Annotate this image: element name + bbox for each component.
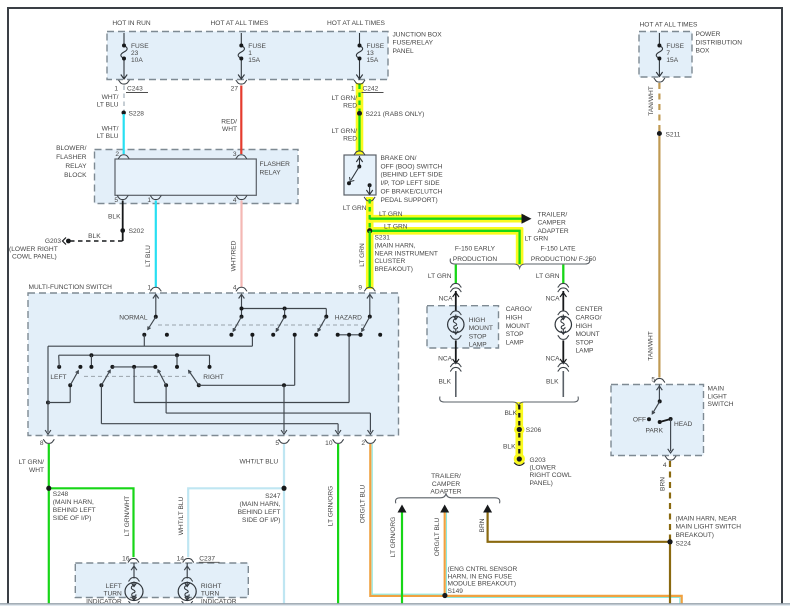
svg-text:OFF (BOO) SWITCH: OFF (BOO) SWITCH <box>381 163 443 170</box>
svg-text:FUSE: FUSE <box>367 43 385 50</box>
svg-text:2: 2 <box>115 151 119 158</box>
svg-text:MODULE BREAKOUT): MODULE BREAKOUT) <box>448 581 517 588</box>
svg-text:NCA: NCA <box>546 295 561 302</box>
svg-text:S221 (RABS ONLY): S221 (RABS ONLY) <box>366 111 425 118</box>
svg-text:(MAIN HARN,: (MAIN HARN, <box>375 242 416 249</box>
svg-text:BEHIND LEFT: BEHIND LEFT <box>53 507 96 514</box>
brace joining lamp grounds <box>440 397 579 407</box>
wire TAN/WHT dashed power box to S211 <box>658 83 660 131</box>
svg-text:SIDE OF I/P): SIDE OF I/P) <box>242 517 280 524</box>
wire LT BLU S228 to relay pin 2 <box>123 114 125 154</box>
wire WHT/LT BLU (white dashed) C243 to S228 <box>123 86 125 112</box>
svg-text:8: 8 <box>40 440 44 447</box>
stop lamp bulb <box>555 316 571 332</box>
svg-text:BREAKOUT): BREAKOUT) <box>676 532 714 539</box>
ground G203 (left) <box>66 239 71 244</box>
svg-text:STOP: STOP <box>506 331 524 338</box>
svg-text:NEAR INSTRUMENT: NEAR INSTRUMENT <box>375 250 438 257</box>
svg-text:WHT/LT BLU: WHT/LT BLU <box>178 496 185 535</box>
svg-text:S231: S231 <box>375 235 391 242</box>
svg-text:NCA: NCA <box>438 356 453 363</box>
splice S247 <box>282 486 287 491</box>
wire BLK to brace <box>455 371 457 397</box>
arrow LT GRN/ORG into adapter <box>398 505 407 513</box>
svg-text:ORG/LT BLU: ORG/LT BLU <box>434 517 441 556</box>
MLS pin 4 <box>665 456 676 460</box>
svg-text:PANEL: PANEL <box>393 48 414 55</box>
MFS top bus (hazard feed) <box>242 308 327 310</box>
svg-text:10: 10 <box>325 440 333 447</box>
svg-text:MOUNT: MOUNT <box>506 323 530 330</box>
svg-text:BLK: BLK <box>88 233 101 240</box>
branch LT GRN to F-150 brace <box>370 231 520 264</box>
wire LT GRN/RED S221 to BOO switch <box>358 116 360 152</box>
fuse 7 15A (power distribution box) <box>658 33 660 46</box>
svg-text:BLK: BLK <box>503 444 516 451</box>
svg-text:RELAY: RELAY <box>65 163 87 170</box>
stop lamp bulb <box>448 316 464 332</box>
svg-text:LAMP: LAMP <box>469 342 488 349</box>
svg-text:S149: S149 <box>448 588 464 595</box>
svg-text:WHT/: WHT/ <box>102 94 119 101</box>
relay pin 5 <box>117 195 128 199</box>
MFS pin 1 top <box>150 287 161 291</box>
wire highlight band LT GRN/RED from C242 <box>356 83 364 155</box>
svg-text:BLOWER/: BLOWER/ <box>56 145 87 152</box>
switch 2 (left turn feed) <box>99 383 103 387</box>
wire TAN/WHT S211 to main light switch <box>658 136 660 378</box>
brace trailer/camper adapter <box>396 494 500 504</box>
svg-text:1: 1 <box>147 285 151 292</box>
svg-text:BRN: BRN <box>659 477 666 491</box>
svg-text:LIGHT: LIGHT <box>708 393 727 400</box>
relay pin 1 <box>150 195 161 199</box>
svg-text:(MAIN HARN,: (MAIN HARN, <box>239 501 280 508</box>
MFS pin 8 bottom <box>43 439 54 443</box>
MFS pin 4 top <box>236 287 247 291</box>
svg-text:HOT AT ALL TIMES: HOT AT ALL TIMES <box>327 20 386 27</box>
svg-text:9: 9 <box>358 285 362 292</box>
svg-text:7: 7 <box>666 50 670 57</box>
branch WHT/LT BLU S247 to cluster pin 14 <box>188 488 284 557</box>
svg-text:MOUNT: MOUNT <box>576 331 600 338</box>
wire LT GRN to stop lamp <box>455 265 457 284</box>
connector C242 pin 1 <box>354 80 365 84</box>
svg-text:CENTER: CENTER <box>576 306 603 313</box>
power box output pin <box>654 78 665 82</box>
wire NCA to lamp <box>562 291 564 312</box>
svg-text:TURN: TURN <box>201 591 220 598</box>
wire LT GRN to stop lamp <box>562 265 564 284</box>
svg-text:TAN/WHT: TAN/WHT <box>648 86 655 116</box>
svg-text:DISTRIBUTION: DISTRIBUTION <box>696 39 743 46</box>
arrow BRN into adapter <box>483 505 492 513</box>
MFS pin 2 bottom <box>365 439 376 443</box>
wire LT GRN/RED dashed C242 to S221 <box>358 85 360 112</box>
relay pin 4 <box>236 195 247 199</box>
arrow ORG/LT BLU into adapter <box>440 505 449 513</box>
svg-text:C243: C243 <box>127 86 143 93</box>
left turn indicator lamp <box>133 563 135 579</box>
svg-text:LT GRN/: LT GRN/ <box>332 95 358 102</box>
svg-text:I/P, TOP LEFT SIDE: I/P, TOP LEFT SIDE <box>381 180 441 187</box>
MLS pin 5 <box>654 378 665 382</box>
wire NCA to lamp <box>455 291 457 312</box>
svg-text:LT GRN: LT GRN <box>359 243 366 267</box>
svg-text:S247: S247 <box>265 493 281 500</box>
MFS bus (normal feed) <box>48 345 252 347</box>
lamp connector cup <box>450 311 461 315</box>
wire highlight band LT GRN below BOO switch to MFS pin 9 <box>366 197 374 289</box>
svg-text:MOUNT: MOUNT <box>469 325 493 332</box>
multi-function switch box <box>28 293 399 436</box>
blower/flasher relay block (dashed) <box>95 150 299 204</box>
svg-text:ADAPTER: ADAPTER <box>538 228 569 235</box>
wire ORG/LT BLU MFS pin2 down to S149 <box>370 444 681 605</box>
svg-text:LAMP: LAMP <box>576 348 595 355</box>
svg-text:FLASHER: FLASHER <box>56 154 87 161</box>
svg-text:RIGHT: RIGHT <box>201 583 222 590</box>
svg-text:FUSE/RELAY: FUSE/RELAY <box>393 40 434 47</box>
svg-text:CAMPER: CAMPER <box>432 481 460 488</box>
wire BRN S224 down <box>669 542 671 605</box>
svg-text:RIGHT: RIGHT <box>203 374 224 381</box>
svg-text:HAZARD: HAZARD <box>335 314 362 321</box>
spare contact right of NORMAL <box>165 333 169 337</box>
splice S228 <box>122 111 126 115</box>
svg-text:OFF: OFF <box>633 417 646 424</box>
wire LT BLU relay pin1 to MFS pin1 <box>155 201 157 288</box>
svg-text:LT BLU: LT BLU <box>97 102 119 109</box>
seg to hazard contact <box>134 402 349 404</box>
svg-text:5: 5 <box>651 376 655 383</box>
svg-text:(MAIN HARN, NEAR: (MAIN HARN, NEAR <box>676 515 737 522</box>
svg-text:3: 3 <box>233 151 237 158</box>
seg to pin 2 <box>166 412 370 414</box>
svg-text:(ENG CNTRL SENSOR: (ENG CNTRL SENSOR <box>448 566 518 573</box>
svg-text:FUSE: FUSE <box>248 43 266 50</box>
svg-text:STOP: STOP <box>576 339 594 346</box>
branch LT GRN/WHT S248 to cluster pin 16 <box>49 488 134 557</box>
MFS pin9 entry + HAZARD switch <box>369 295 371 317</box>
svg-text:CARGO/: CARGO/ <box>506 306 532 313</box>
svg-text:SIDE OF I/P): SIDE OF I/P) <box>53 515 91 522</box>
RIGHT switch <box>197 383 201 387</box>
svg-text:S206: S206 <box>526 427 542 434</box>
svg-text:1: 1 <box>351 86 355 93</box>
wire WHT/RED relay pin4 to MFS pin4 <box>240 201 242 288</box>
svg-text:BLK: BLK <box>505 410 518 417</box>
svg-text:RED: RED <box>343 102 357 109</box>
wire BLK to brace <box>562 371 564 397</box>
svg-text:WHT/: WHT/ <box>102 126 119 133</box>
seg contacts row <box>112 366 155 368</box>
svg-text:F-150 EARLY: F-150 EARLY <box>455 245 496 252</box>
svg-text:HIGH: HIGH <box>506 315 523 322</box>
svg-text:(LOWER: (LOWER <box>530 465 557 472</box>
splice S149 <box>442 593 447 598</box>
svg-text:HIGH: HIGH <box>576 323 593 330</box>
wire highlight band LT GRN branch to trailer adapter <box>367 215 526 223</box>
main light switch box <box>611 385 704 456</box>
svg-text:BLK: BLK <box>439 378 452 385</box>
svg-text:OF BRAKE/CLUTCH: OF BRAKE/CLUTCH <box>381 188 443 195</box>
svg-text:HIGH: HIGH <box>469 317 486 324</box>
svg-text:WHT/RED: WHT/RED <box>231 240 238 271</box>
splice S206 <box>517 427 522 432</box>
seg to pin 10 <box>101 423 338 425</box>
MFS bus 2 <box>59 354 210 356</box>
svg-text:POWER: POWER <box>696 31 721 38</box>
svg-text:15A: 15A <box>367 57 379 64</box>
svg-text:S248: S248 <box>53 491 69 498</box>
svg-text:(MAIN HARN,: (MAIN HARN, <box>53 499 94 506</box>
svg-text:2: 2 <box>361 440 365 447</box>
svg-text:(LOWER RIGHT: (LOWER RIGHT <box>9 246 58 253</box>
svg-text:16: 16 <box>122 555 130 562</box>
relay pin 2 <box>118 155 129 159</box>
svg-text:S202: S202 <box>129 228 145 235</box>
MFS pin 10 bottom <box>333 439 344 443</box>
page bottom edge strip <box>0 603 790 605</box>
inline connector (double cup) <box>450 283 461 287</box>
lamp connector cup <box>558 311 569 315</box>
svg-text:BEHIND LEFT: BEHIND LEFT <box>238 509 281 516</box>
svg-text:NORMAL: NORMAL <box>119 314 148 321</box>
fuse 23 10A <box>123 33 125 46</box>
svg-text:NCA: NCA <box>546 356 561 363</box>
svg-text:CAMPER: CAMPER <box>538 220 566 227</box>
svg-text:FUSE: FUSE <box>666 43 684 50</box>
svg-text:C237: C237 <box>199 555 215 562</box>
svg-text:LT BLU: LT BLU <box>145 245 152 267</box>
svg-text:SWITCH: SWITCH <box>708 401 734 408</box>
wire NCA below lamp <box>562 340 564 362</box>
svg-text:BLK: BLK <box>546 378 559 385</box>
MFS pin 9 top <box>364 287 375 291</box>
svg-text:HOT AT ALL TIMES: HOT AT ALL TIMES <box>211 20 270 27</box>
svg-text:WHT/LT BLU: WHT/LT BLU <box>240 458 279 465</box>
MFS dashed position line LEFT-RIGHT <box>84 375 188 377</box>
svg-text:LT GRN: LT GRN <box>536 273 560 280</box>
svg-text:WHT: WHT <box>29 467 44 474</box>
splice S248 <box>46 486 51 491</box>
svg-text:LT GRN: LT GRN <box>428 273 452 280</box>
svg-text:NCA: NCA <box>439 295 454 302</box>
inline connector (double cup) <box>558 363 569 367</box>
svg-text:WHT: WHT <box>222 126 237 133</box>
svg-text:TURN: TURN <box>103 591 122 598</box>
wire BLK dashed S206 to G203 <box>518 433 520 455</box>
svg-text:MULTI-FUNCTION SWITCH: MULTI-FUNCTION SWITCH <box>29 284 113 291</box>
svg-text:HOT IN RUN: HOT IN RUN <box>112 20 151 27</box>
svg-text:13: 13 <box>367 50 375 57</box>
fuse 13 15A <box>359 33 361 46</box>
svg-text:LT GRN: LT GRN <box>384 224 408 231</box>
svg-text:LT GRN: LT GRN <box>525 235 549 242</box>
svg-text:LT BLU: LT BLU <box>97 133 119 140</box>
svg-text:LT GRN: LT GRN <box>379 211 403 218</box>
seg pin8 to LEFT blade <box>48 402 70 404</box>
svg-text:4: 4 <box>663 462 667 469</box>
instrument cluster box (turn indicators) <box>75 563 248 598</box>
svg-text:RIGHT COWL: RIGHT COWL <box>530 472 572 479</box>
wire highlight band BLK below lamp brace to G203 <box>515 402 523 463</box>
svg-text:JUNCTION BOX: JUNCTION BOX <box>393 31 443 38</box>
svg-text:CARGO/: CARGO/ <box>576 315 602 322</box>
svg-text:5: 5 <box>114 197 118 204</box>
wire highlight band LT GRN branch to F-150 brace <box>367 227 523 235</box>
svg-text:G203: G203 <box>45 238 61 245</box>
svg-text:BRAKE ON/: BRAKE ON/ <box>381 155 417 162</box>
svg-text:BOX: BOX <box>696 48 711 55</box>
svg-text:BREAKOUT): BREAKOUT) <box>375 266 413 273</box>
svg-text:S228: S228 <box>129 111 145 118</box>
svg-text:PEDAL SUPPORT): PEDAL SUPPORT) <box>381 197 438 204</box>
hazard contact strip <box>338 334 361 336</box>
svg-text:G203: G203 <box>530 457 546 464</box>
fuse 1 15A <box>240 33 242 46</box>
svg-text:PANEL): PANEL) <box>530 480 553 487</box>
cargo/high mount stop lamp box <box>427 306 499 348</box>
svg-text:BLOCK: BLOCK <box>64 172 87 179</box>
svg-text:10A: 10A <box>131 57 143 64</box>
svg-text:LT GRN/: LT GRN/ <box>19 459 45 466</box>
splice S221 <box>357 111 362 116</box>
right turn indicator lamp <box>186 563 188 579</box>
svg-text:1: 1 <box>114 86 118 93</box>
MFS dashed position line NORMAL-HAZARD <box>158 324 364 326</box>
wire RED/WHT pin27 to relay pin 3 <box>240 86 242 155</box>
svg-text:RED: RED <box>343 136 357 143</box>
wire NCA below lamp <box>455 340 457 362</box>
connector C237 pin 16 <box>128 558 139 562</box>
spare contact right of HAZARD <box>378 333 382 337</box>
svg-text:(BEHIND LEFT SIDE: (BEHIND LEFT SIDE <box>381 172 444 179</box>
wire LT GRN S231 to MFS pin 9 <box>369 231 371 287</box>
relay pin 3 <box>236 155 247 159</box>
svg-text:TRAILER/: TRAILER/ <box>431 473 461 480</box>
brace F-150 production split <box>450 259 590 269</box>
flasher relay inner box <box>115 159 256 195</box>
hazard-side switches <box>233 317 241 332</box>
svg-text:HARN, IN ENG FUSE: HARN, IN ENG FUSE <box>448 573 513 580</box>
svg-text:S224: S224 <box>676 541 692 548</box>
svg-text:BRN: BRN <box>479 518 486 532</box>
inline connector (double cup) <box>558 283 569 287</box>
svg-text:BLK: BLK <box>108 214 121 221</box>
svg-text:HOT AT ALL TIMES: HOT AT ALL TIMES <box>640 22 699 29</box>
connector C243 pin 1 <box>119 80 130 84</box>
svg-text:CLUSTER: CLUSTER <box>375 258 406 265</box>
svg-text:C242: C242 <box>363 86 379 93</box>
svg-text:LT GRN/: LT GRN/ <box>332 128 358 135</box>
svg-text:LT GRN: LT GRN <box>343 205 367 212</box>
svg-text:4: 4 <box>233 197 237 204</box>
wire LT GRN/WHT MFS pin8 down <box>48 444 50 604</box>
wire WHT/LT BLU MFS pin5 down <box>283 444 285 604</box>
BOO switch internals <box>359 156 361 167</box>
svg-text:RED/: RED/ <box>221 118 237 125</box>
svg-text:1: 1 <box>248 50 252 57</box>
svg-text:LT GRN/ORG: LT GRN/ORG <box>328 486 335 526</box>
junction box fuse/relay panel <box>107 32 388 80</box>
splice S231 <box>367 228 372 233</box>
svg-text:LAMP: LAMP <box>506 339 525 346</box>
svg-text:LT GRN/ORG: LT GRN/ORG <box>390 517 397 557</box>
branch LT GRN to trailer/camper adapter (arrow) <box>370 218 522 220</box>
svg-text:PRODUCTION/ F-250: PRODUCTION/ F-250 <box>531 256 597 263</box>
svg-text:S211: S211 <box>666 131 681 138</box>
seg RIGHT blade to pin 5 / contact <box>199 384 295 386</box>
svg-text:14: 14 <box>177 555 185 562</box>
brake on/off (BOO) switch box <box>344 155 376 195</box>
MFS pin 5 bottom <box>279 439 290 443</box>
LEFT switch <box>57 365 61 369</box>
ground G203 (lower right cowl) <box>517 456 522 461</box>
svg-text:FLASHER: FLASHER <box>260 161 291 168</box>
svg-text:PRODUCTION: PRODUCTION <box>453 256 498 263</box>
svg-text:RELAY: RELAY <box>260 169 282 176</box>
svg-text:MAIN: MAIN <box>708 386 725 393</box>
MFS pin1 entry + NORMAL switch <box>155 295 157 317</box>
svg-text:F-150 LATE: F-150 LATE <box>540 245 576 252</box>
svg-text:FUSE: FUSE <box>131 43 149 50</box>
BOO switch input cup <box>354 151 365 155</box>
svg-text:LEFT: LEFT <box>50 374 66 381</box>
svg-text:LT GRN/WHT: LT GRN/WHT <box>124 496 131 536</box>
switch 3 (right turn feed) <box>164 383 168 387</box>
svg-text:15A: 15A <box>248 57 260 64</box>
svg-text:TRAILER/: TRAILER/ <box>538 211 568 218</box>
svg-text:23: 23 <box>131 50 139 57</box>
svg-text:STOP: STOP <box>469 333 487 340</box>
wire BRN dashed MLS to S224 <box>669 461 671 540</box>
splice S224 <box>667 539 672 544</box>
svg-text:1: 1 <box>147 197 151 204</box>
svg-text:HEAD: HEAD <box>674 421 693 428</box>
svg-text:MAIN LIGHT SWITCH: MAIN LIGHT SWITCH <box>676 524 742 531</box>
wire LT GRN/ORG MFS pin10 down <box>337 444 339 604</box>
wire LT GRN dashed BOO to S231 <box>369 199 371 229</box>
MLS internals <box>658 385 660 402</box>
connector C237 pin 14 <box>183 558 194 562</box>
svg-text:TAN/WHT: TAN/WHT <box>647 331 654 361</box>
splice S211 <box>657 131 662 136</box>
svg-text:5: 5 <box>275 440 279 447</box>
svg-text:PARK: PARK <box>646 427 664 434</box>
inline connector (double cup) <box>450 363 461 367</box>
svg-text:COWL PANEL): COWL PANEL) <box>12 254 57 261</box>
svg-text:15A: 15A <box>666 57 678 64</box>
wire BLK dashed brace to S206 <box>518 405 520 427</box>
junction box pin 27 <box>236 80 247 84</box>
svg-text:LEFT: LEFT <box>106 583 122 590</box>
power distribution box <box>639 32 692 78</box>
wire BLK relay pin5 to S202 to G203 <box>122 201 124 242</box>
svg-text:ORG/LT BLU: ORG/LT BLU <box>360 484 367 523</box>
svg-text:4: 4 <box>233 285 237 292</box>
svg-text:27: 27 <box>231 86 239 93</box>
